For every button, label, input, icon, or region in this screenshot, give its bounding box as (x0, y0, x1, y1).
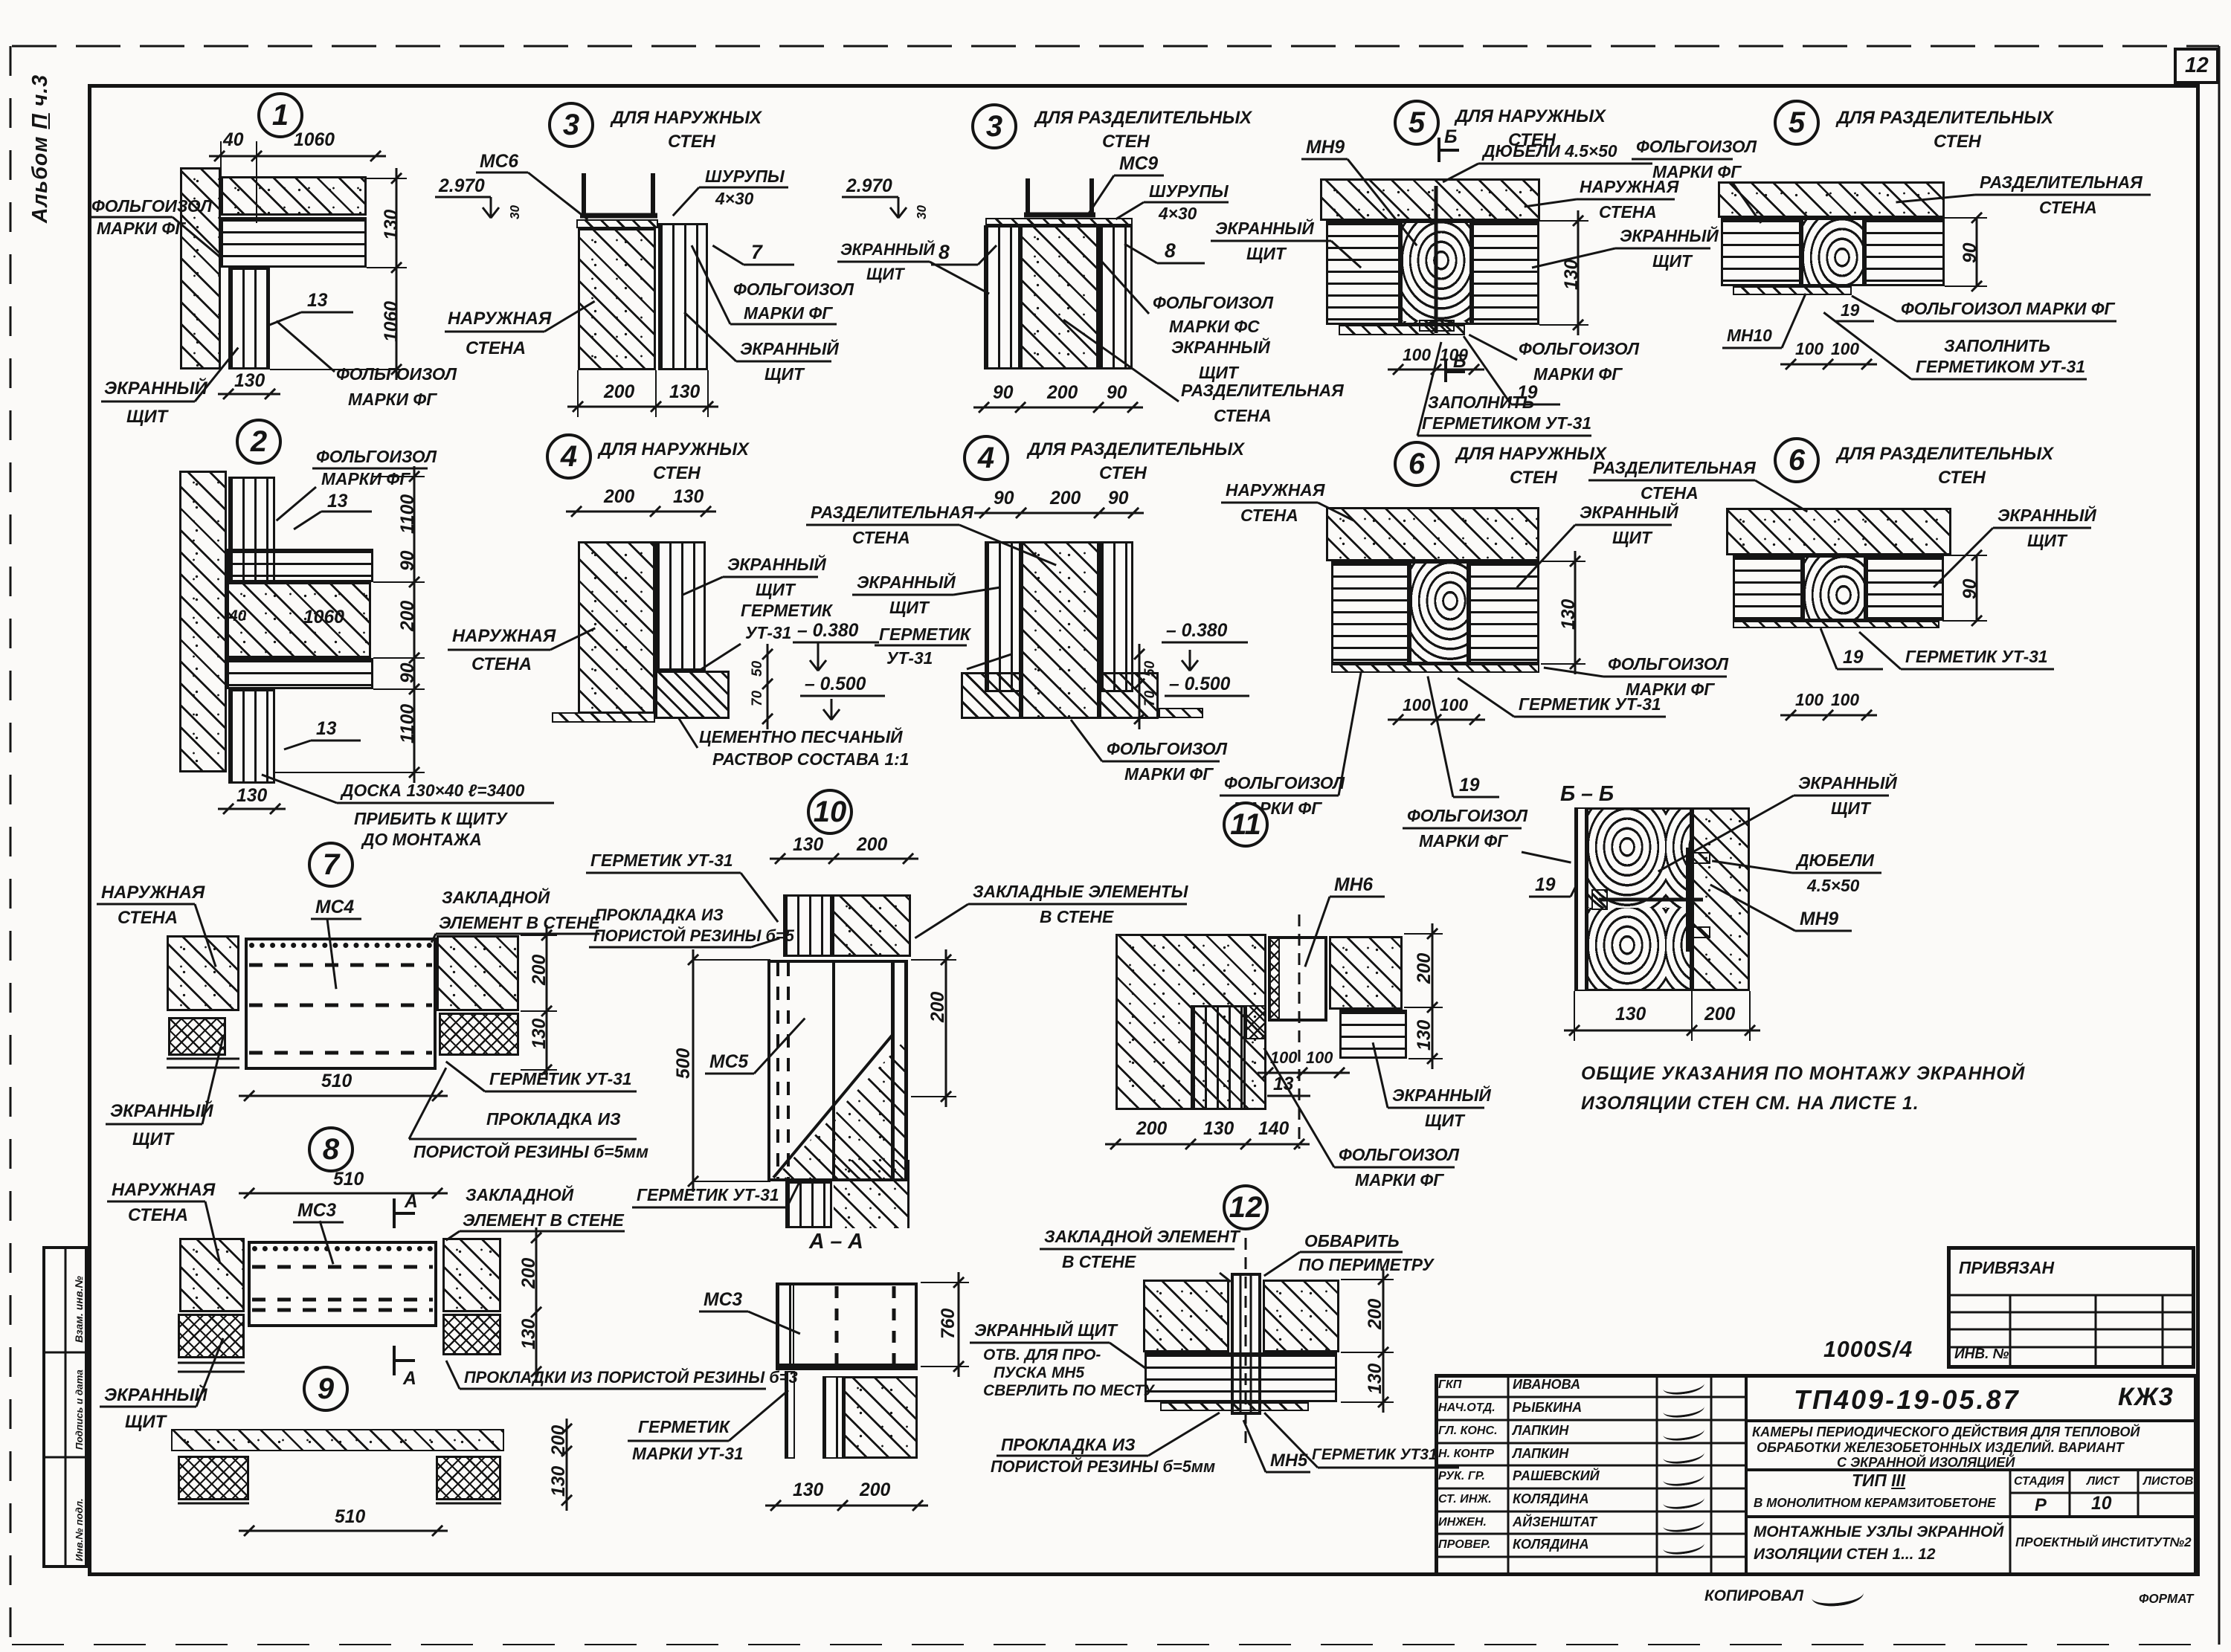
signature 8 (1662, 1535, 1705, 1557)
leader ekranny d3b (929, 261, 989, 295)
label naruzhnaya d6 (1226, 482, 1324, 500)
detail 7 left crosshatch (168, 1017, 226, 1056)
label folgoizol d2 (316, 448, 437, 466)
label underline (1615, 248, 1710, 250)
detail 3b right screen (1098, 225, 1133, 370)
label ekranny d3 (740, 341, 839, 358)
staff row line 6 (1435, 1511, 1746, 1513)
dim 200 v d9 (550, 1424, 569, 1455)
label underline (997, 1455, 1148, 1457)
privyazan divider 1 (2009, 1295, 2012, 1369)
label underline (1417, 435, 1591, 437)
A-A concrete block (843, 1376, 918, 1459)
detail 11 channel box (1268, 936, 1327, 1022)
leader ekranny d3 (683, 312, 737, 362)
detail 9 top slab (171, 1429, 504, 1451)
dim 90 v d6b (1976, 555, 1978, 621)
label 8 right (1165, 241, 1176, 262)
detail 1 wall hatch (180, 167, 221, 370)
label poristoy d12 (991, 1459, 1215, 1476)
A-A dashed vertical 1 (835, 1286, 839, 1364)
signature 7 (1662, 1513, 1705, 1535)
detail 2 ext lines right (373, 476, 425, 477)
label 13 d2 lower (316, 720, 336, 739)
dim text 40 (223, 131, 243, 150)
label underline (1318, 1467, 1459, 1469)
A-A left strip lower (785, 1371, 795, 1459)
detail 4b top dims 90 200 90 (974, 512, 1144, 514)
label underline (875, 645, 967, 647)
detail 6 circle (1394, 441, 1440, 487)
leader germetik d12 (1263, 1412, 1319, 1468)
detail 12 bolt axis (1245, 1238, 1247, 1450)
A-A post (822, 1376, 843, 1459)
leader zakladnoy d12 (1219, 1272, 1232, 1282)
label underline (730, 323, 837, 326)
staff row line 3 (1435, 1442, 1746, 1445)
outer border top (dash-dot) (12, 45, 2219, 48)
detail 5 circle (1394, 100, 1440, 146)
detail 3b base hatch strip (985, 218, 1133, 225)
detail 5 bottom dims 100 100 (1388, 369, 1484, 371)
detail 2 wall hatch (179, 471, 227, 772)
label underline (445, 331, 544, 333)
detail 6 left screen (1331, 561, 1409, 664)
dim 200 v d12 (1366, 1298, 1385, 1329)
label poristoy d10 (593, 928, 794, 945)
label underline (1144, 201, 1229, 204)
B-B dowel bottom (1693, 926, 1710, 938)
label underline (1211, 240, 1331, 242)
detail 6b right screen (1866, 555, 1944, 621)
text tip III (1852, 1472, 1905, 1490)
leader zakladnoy d7 (431, 933, 437, 943)
detail 4 circle (546, 433, 592, 480)
detail 5 nut plate (1419, 320, 1455, 332)
label underline (628, 1440, 729, 1442)
detail 12 screen rows (1145, 1352, 1337, 1402)
detail 1 ext lines right (367, 178, 407, 179)
level -0.500 d4b (1169, 675, 1230, 694)
privyazan row line 2 (1947, 1311, 2195, 1314)
label MN6 (1334, 876, 1373, 895)
label ekranny d6b (1997, 507, 2096, 525)
label underline (1102, 761, 1220, 763)
staff name ИВАНОВА (1513, 1378, 1580, 1392)
detail 8 circle (308, 1126, 354, 1172)
outer border bottom (dashed) (12, 1644, 2219, 1645)
detail 12 plate inner lines (1240, 1273, 1242, 1415)
detail 3b left screen (984, 225, 1020, 370)
detail 3 circle (548, 102, 594, 148)
dim text 90 v (399, 551, 418, 571)
label razdelitelnaya d3b (1181, 382, 1344, 400)
ext d5 right (1539, 220, 1588, 222)
leader naruzh d6 (1317, 502, 1353, 522)
label underline (1577, 199, 1675, 201)
signature 1 (1662, 1375, 1705, 1397)
label germetik AA (638, 1419, 730, 1436)
label MN10 (1727, 327, 1772, 345)
leader razdel d5b (1896, 194, 1975, 204)
detail 8 right concrete (442, 1238, 501, 1312)
label MC4 (315, 898, 354, 917)
detail 12 circle (1223, 1184, 1269, 1230)
leader prokladka d7 (408, 1067, 448, 1139)
label underline (852, 594, 953, 596)
dim line v d8 (535, 1227, 538, 1382)
label germetik d6 (1519, 696, 1661, 714)
panel dashed d8 2 (252, 1298, 433, 1302)
sheet number box (2174, 48, 2219, 84)
label ekranny shchit d3b left (840, 242, 935, 259)
detail 2 upper screen column (228, 477, 275, 582)
label underline (1911, 378, 2087, 381)
detail 11 big concrete (1115, 934, 1266, 1110)
privyazan box (1947, 1246, 2195, 1369)
elevation mark (490, 197, 492, 218)
detail 12 left concrete (1143, 1280, 1229, 1352)
leader folgoizol bottom (276, 320, 335, 372)
label underline (1300, 1251, 1403, 1253)
leader germetik AA (728, 1390, 789, 1442)
detail 5 title (1455, 107, 1606, 126)
label underline (436, 933, 599, 935)
leader razdel d3b (1063, 319, 1179, 402)
left margin stamp: Album II ch.3 (rotated) (30, 74, 52, 223)
detail 4 screen column (655, 541, 706, 671)
staff row line 5 (1435, 1488, 1746, 1490)
leader MC3 AA (747, 1311, 800, 1335)
dim line 50-70 (767, 644, 769, 729)
detail 9 left crosshatch (178, 1456, 249, 1500)
detail 1 vertical screen panel (228, 268, 270, 370)
B-B bolt head (1591, 889, 1608, 910)
detail 3 screen column (658, 223, 708, 370)
label 13 d11 (1273, 1075, 1293, 1094)
detail 5b bottom dims 100 100 (1780, 364, 1877, 366)
detail 6b bottom strip (1733, 621, 1939, 628)
detail 4b circle (963, 435, 1009, 481)
label underline (736, 361, 831, 363)
label ekranny d5 (1620, 228, 1719, 245)
text P (2035, 1496, 2047, 1514)
privyazan divider 3 (2162, 1295, 2164, 1369)
detail 11 right concrete (1329, 936, 1403, 1010)
elevation mark d3b (898, 197, 900, 218)
note underline (337, 802, 554, 804)
leader folgo BB (1522, 851, 1571, 864)
section A-A heading (809, 1231, 863, 1253)
label underline (448, 649, 550, 651)
detail 5b bottom strip (1733, 286, 1852, 295)
staff table right edge (1745, 1374, 1748, 1576)
detail 7 left strips (167, 1058, 239, 1060)
stadia header underline (2010, 1492, 2198, 1494)
staff label ИНЖЕН. (1438, 1516, 1487, 1529)
label folgoizol marki FG left (91, 198, 212, 216)
detail 5b wall hatch (1718, 181, 1945, 218)
dim 200 v d10 right (929, 991, 948, 1022)
dim 500 v d10 (675, 1048, 694, 1078)
dim line v d11 (1432, 923, 1434, 1069)
leader MC4 (326, 919, 338, 989)
label naruzhnaya d7 (101, 883, 205, 902)
leader germetik d10 b (786, 1181, 801, 1207)
detail 3b bottom dims (973, 407, 1143, 409)
note rastvor (712, 751, 909, 769)
detail 6b wall hatch (1726, 508, 1951, 555)
side stamp divider 1 (42, 1352, 88, 1354)
label underline (460, 1230, 625, 1233)
label underline (460, 1388, 766, 1390)
side stamp text Podpis i data (74, 1369, 85, 1450)
detail 7 circle (308, 842, 354, 888)
list col divider (2137, 1470, 2140, 1517)
leader zapolnit d5b (1823, 312, 1912, 380)
detail 9 right strip (436, 1503, 501, 1505)
detail 4 floor strip (552, 712, 655, 723)
leader zakladnye d10 (914, 903, 969, 939)
label ekranny d4 (727, 556, 826, 574)
privyazan divider 2 (2095, 1295, 2097, 1369)
detail 3 channel (582, 173, 586, 218)
privyazan row line 1 (1947, 1294, 2195, 1297)
label underline (1575, 524, 1672, 526)
label shurupy d3b (1149, 183, 1229, 201)
level arrow d4b (1189, 650, 1191, 671)
label underline (1334, 1167, 1455, 1169)
detail 10 circle (807, 789, 853, 835)
leader zakladnoy d8 (445, 1230, 460, 1241)
leader MC6 (527, 172, 588, 220)
leader 19 BB (1570, 884, 1578, 897)
dim 70 d4 (750, 690, 765, 706)
band line under title (1746, 1468, 2198, 1471)
label folgoizol FG d5b bottom (1901, 300, 2115, 318)
label 8 left (939, 242, 950, 263)
dim bracket d10 right (945, 949, 947, 1107)
label MC3 AA (704, 1291, 742, 1310)
handwritten 1000S/4 (1823, 1338, 1913, 1362)
leader ekranny BB (1658, 795, 1794, 873)
label underline (101, 401, 195, 403)
panel dashed d8 1 (252, 1265, 433, 1269)
kopiroval signature (1811, 1582, 1865, 1608)
detail 2 middle slab hatch (227, 582, 371, 658)
doc code KZh3 (2118, 1384, 2174, 1411)
general note line 2 (1581, 1094, 1919, 1114)
dim line v d12 (1382, 1269, 1385, 1413)
leader naruzh d5 (1525, 199, 1577, 208)
label underline (485, 1091, 637, 1093)
dim 130 v d8 (520, 1318, 539, 1349)
leader prokladka d10 (751, 938, 780, 949)
note pribit k shchitu (354, 810, 507, 828)
leader ekranny d11 (1372, 1042, 1389, 1109)
dim text 1060 inner (303, 608, 344, 627)
leader folgo d4b (1070, 719, 1103, 762)
label zapolnit (1428, 394, 1534, 412)
label underline (1514, 716, 1666, 718)
leader MC9 (1086, 175, 1115, 216)
staff row line 7 (1435, 1533, 1746, 1535)
A-A left strip (776, 1282, 794, 1367)
title text line3 (1837, 1456, 2015, 1470)
dim 30 small d3b (915, 205, 929, 219)
panel dashed line 2 (249, 1004, 432, 1007)
label germetik d4b (879, 626, 970, 644)
detail 5 anchor bolt (1435, 186, 1438, 333)
staff label РУК. ГР. (1438, 1470, 1485, 1482)
label ekranny BB (1798, 775, 1897, 793)
detail 4b right floor strip (1159, 708, 1203, 718)
text proektny institut (2015, 1536, 2192, 1549)
detail 7 right concrete (437, 935, 519, 1011)
A-A cross member (776, 1366, 918, 1370)
label underline (106, 1123, 202, 1126)
leader shurupy d3b (1115, 201, 1145, 221)
detail 5 left screen (1326, 221, 1400, 325)
label underline (1388, 1107, 1484, 1109)
dim text 1060 (294, 131, 335, 150)
leader folgo d6 right (1544, 667, 1603, 678)
label MN5 d12 (1270, 1451, 1307, 1470)
leader folgoizol FS (1100, 259, 1150, 314)
detail 8 top dim 510 (239, 1193, 448, 1195)
detail 4 wall hatch (578, 541, 655, 714)
privyazan row line 3 (1947, 1329, 2195, 1331)
tip box right edge (2009, 1470, 2012, 1517)
staff label ГКП (1438, 1378, 1461, 1391)
B-B anchor bolt (1599, 898, 1703, 902)
band line montazh (1746, 1515, 2198, 1518)
leader folgoizol d5 (1468, 334, 1517, 361)
label razdelitelnaya d5b (1980, 174, 2143, 192)
detail 5 right screen (1472, 221, 1539, 325)
panel chain row d8 (252, 1246, 433, 1251)
detail 11 right screen (1339, 1010, 1407, 1059)
leader germetik d4 (698, 643, 741, 672)
detail 3b wall hatch (1020, 225, 1098, 370)
label underline (1794, 795, 1889, 797)
detail 4 base block (655, 671, 730, 719)
label ut31 d4 (745, 625, 791, 642)
dim 30 small (509, 205, 522, 219)
stadia col divider (2069, 1470, 2071, 1517)
doc number text (1794, 1386, 2021, 1414)
detail 10 top concrete (832, 894, 911, 957)
label folgoizol FG d5b top (1636, 138, 1757, 156)
label 7 (751, 242, 762, 263)
detail 9 bottom dim 510 (239, 1530, 448, 1532)
dim 130 v d12 (1366, 1363, 1385, 1393)
leader naruzh d4 (550, 627, 595, 651)
detail 4 title (599, 440, 749, 459)
label razdelitelnaya d4b (811, 504, 973, 522)
label dyubeli BB (1797, 852, 1874, 870)
detail 11 left screen column (1191, 1005, 1246, 1110)
label prokladka d12 (1001, 1436, 1136, 1454)
detail 3b circle (971, 103, 1017, 149)
detail 7 bottom dim 510 (239, 1095, 448, 1097)
detail 11 channel inner hatch (1268, 936, 1280, 1022)
leader obvarit (1263, 1251, 1301, 1277)
leader 8 left (977, 245, 997, 265)
dim text 200 v (399, 600, 418, 630)
side stamp text Inv No podl (74, 1498, 85, 1561)
detail 3b title (1035, 109, 1252, 127)
leader 13 lower (284, 740, 312, 751)
signature 5 (1662, 1467, 1705, 1488)
text kopiroval (1704, 1588, 1803, 1604)
label 13 d2 (327, 492, 347, 512)
ext d10 left (693, 959, 770, 961)
dim text 1100 v b (399, 704, 418, 743)
detail 4 top dims 200 130 (566, 511, 716, 513)
detail 8 left crosshatch (178, 1314, 245, 1358)
staff name АЙЗЕНШТАТ (1513, 1515, 1597, 1529)
staff col divider 1 (1507, 1374, 1510, 1576)
leader folgo d11 (1263, 1048, 1336, 1168)
ext d6 (1541, 561, 1585, 562)
panel lower-right concrete triangle (773, 1033, 908, 1179)
leader MC5 (753, 1018, 805, 1074)
detail 4b right base (1099, 672, 1159, 719)
detail 9 circle (303, 1366, 349, 1412)
detail 1 circle (257, 92, 303, 138)
label underline (589, 946, 751, 949)
label razdelitelnaya d6 (1593, 459, 1756, 477)
detail 11 bottom dims 200 130 140 (1105, 1143, 1310, 1146)
label folgoizol d6 left (1224, 775, 1345, 793)
text 10 (2091, 1494, 2111, 1514)
label folgoizol d11 (1339, 1146, 1459, 1164)
dim 200 v d7 (530, 954, 550, 984)
label underline (1221, 502, 1318, 504)
leader shurupy (672, 187, 700, 216)
staff row line 8 (1435, 1556, 1746, 1558)
staff name КОЛЯДИНА (1513, 1492, 1589, 1506)
detail 2 lower screen slab (227, 658, 373, 689)
staff col divider 3 (1710, 1374, 1713, 1576)
dim text 1060 v (382, 301, 402, 342)
label underline (409, 1138, 637, 1140)
label zakladnoy d12 (1044, 1228, 1240, 1246)
text listov (2143, 1475, 2193, 1488)
leader MN9 (1347, 158, 1417, 246)
leader 7 (712, 245, 744, 266)
detail 4b title (1028, 440, 1244, 459)
label underline (1603, 676, 1727, 678)
detail 10 top dims 130 200 (770, 858, 918, 860)
B-B wood screen panel (1586, 807, 1692, 991)
detail 8 left concrete (179, 1238, 245, 1312)
label ekranny d8 (104, 1386, 207, 1404)
label underline (723, 576, 818, 578)
leader MN9 BB (1710, 884, 1795, 932)
outer border right (2218, 46, 2221, 1645)
section mark A top (393, 1198, 396, 1228)
label underline (1993, 527, 2091, 529)
detail 2 upper screen slab (227, 549, 373, 582)
label germetik UT31 d12 (1312, 1447, 1438, 1463)
detail 10 bottom screen column (785, 1181, 832, 1228)
label underline (88, 216, 173, 219)
leader razdel d4b (959, 524, 1056, 567)
detail 5b right screen (1864, 218, 1945, 286)
detail 6b bottom dims (1780, 714, 1877, 717)
